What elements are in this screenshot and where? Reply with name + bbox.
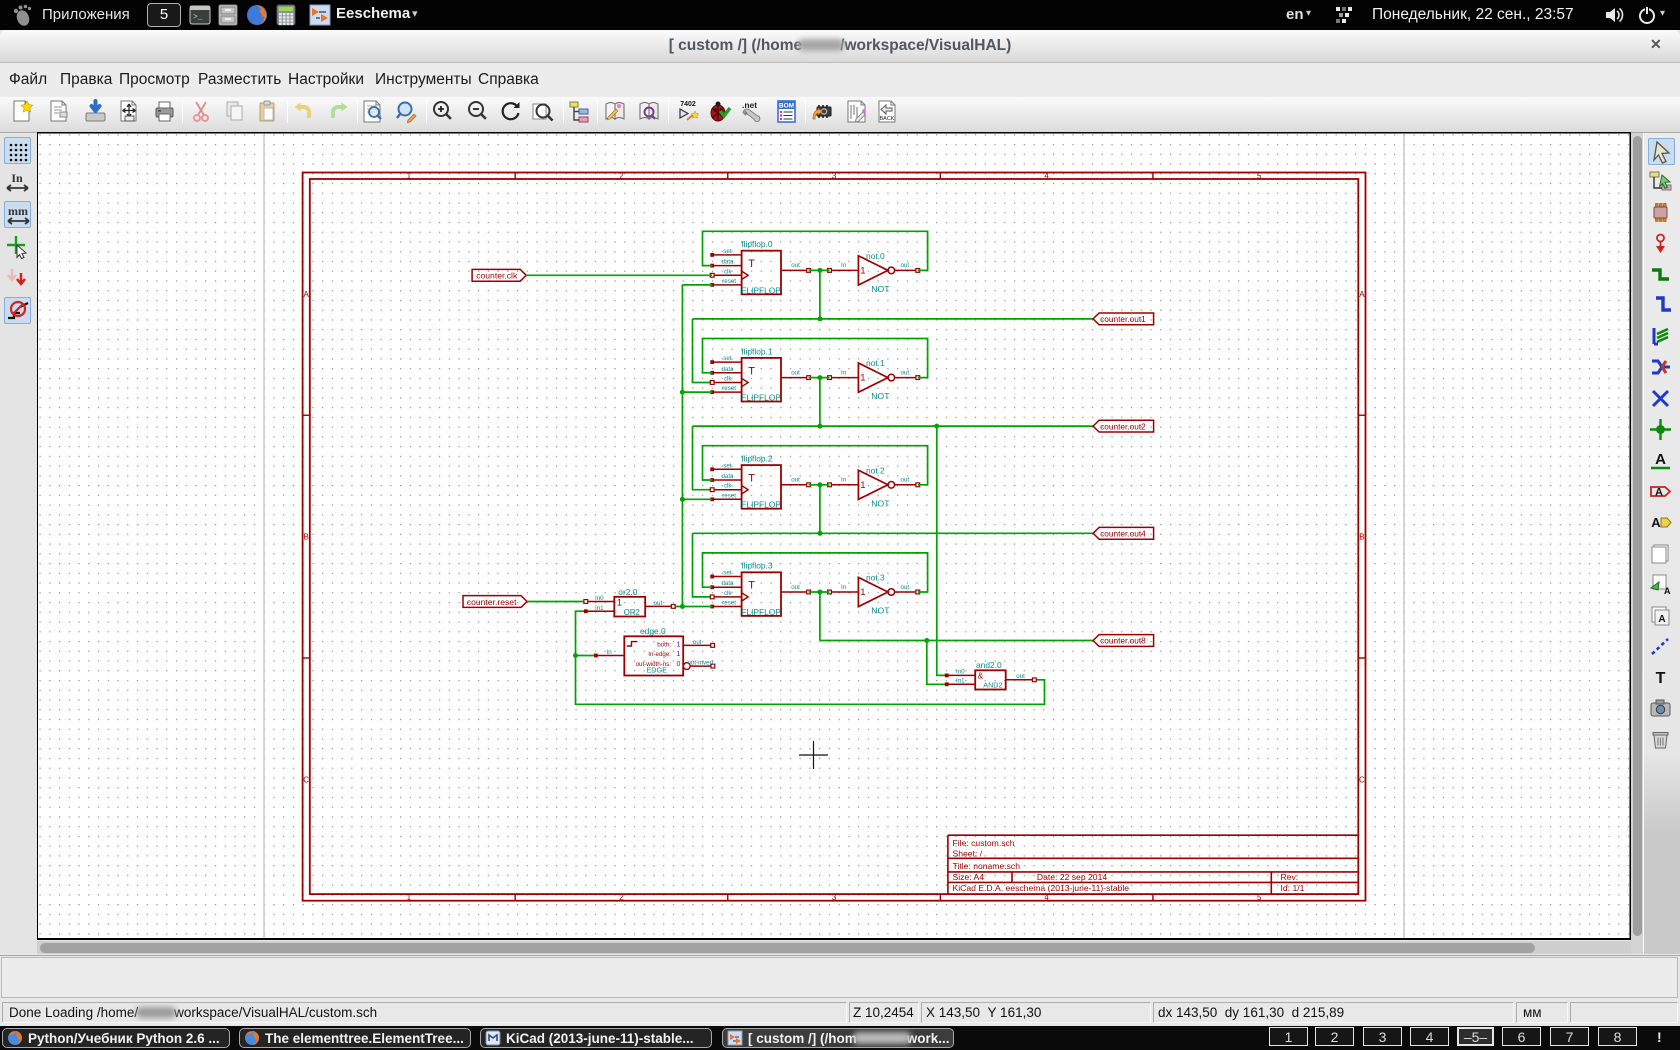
pin In of edge.0 [594, 649, 624, 658]
right tools toolbar [1643, 133, 1680, 954]
svg-text:reset: reset [722, 492, 736, 499]
svg-text:NOT: NOT [871, 498, 890, 508]
svg-text:7402: 7402 [680, 101, 696, 108]
svg-text:1: 1 [860, 587, 865, 598]
svg-text:Sheet: /: Sheet: / [953, 848, 983, 858]
svg-text:C: C [1359, 775, 1365, 784]
svg-text:In1: In1 [595, 605, 604, 612]
wire reset stub to flipflop.2 [682, 498, 712, 500]
junction at flipflop.0 out [817, 268, 822, 273]
svg-text:5: 5 [1257, 893, 1262, 902]
pin out of flipflop.1 [781, 369, 811, 379]
svg-text:C: C [303, 775, 309, 784]
horizontal scrollbar [37, 941, 1631, 954]
svg-text:reset: reset [722, 385, 736, 392]
svg-text:clk: clk [724, 268, 732, 275]
svg-text:not.0: not.0 [866, 251, 885, 261]
svg-text:4: 4 [1044, 893, 1049, 902]
svg-text:flipflop.2: flipflop.2 [741, 454, 773, 464]
svg-text:data: data [721, 580, 734, 587]
svg-text:In: In [841, 584, 847, 591]
junction at flipflop.3 out [817, 590, 822, 595]
svg-text:A: A [1658, 614, 1665, 625]
page right edge [1403, 134, 1405, 938]
pin clk of flipflop.1 [710, 376, 748, 387]
pin out of or2.0 [645, 600, 675, 608]
left tool grid icon [4, 137, 31, 164]
menu bar [0, 63, 1680, 97]
svg-text:3: 3 [832, 171, 837, 180]
page left edge [263, 134, 265, 938]
svg-text:and2.0: and2.0 [976, 660, 1002, 670]
junction reset vertical at flipflop.1 [680, 390, 685, 395]
svg-text:out: out [693, 639, 702, 646]
inverter not.1 [858, 358, 894, 401]
wire or2.0 out to flipflop.3 reset [673, 606, 712, 608]
pin set of flipflop.2 [710, 462, 741, 471]
svg-text:reset: reset [722, 600, 736, 607]
pin In of not.2 [828, 477, 859, 487]
svg-text:.net: .net [742, 100, 757, 110]
pin data of flipflop.1 [710, 366, 741, 375]
svg-text:clk: clk [724, 483, 732, 490]
pin out of and2.0 [1006, 673, 1037, 682]
svg-text:A: A [1359, 290, 1365, 299]
pin set of flipflop.1 [710, 355, 741, 364]
svg-text:flipflop.1: flipflop.1 [741, 346, 773, 356]
svg-text:EDGE: EDGE [647, 666, 668, 675]
wire counter.out2 down to flipflop.2 clk [693, 426, 713, 490]
pin data of flipflop.3 [710, 580, 741, 589]
svg-text:A: A [1655, 487, 1663, 499]
wire flipflop.1 out to not.1 In [809, 377, 830, 379]
svg-text:clk: clk [724, 590, 732, 597]
pin In of not.1 [828, 369, 859, 379]
svg-text:data: data [721, 259, 734, 266]
junction at flipflop.2 out [817, 482, 822, 487]
svg-text:In1: In1 [956, 677, 965, 684]
svg-text:5: 5 [1257, 171, 1262, 180]
wire junction down to counter.out8 net [819, 592, 821, 641]
sheet border frame [303, 171, 1366, 902]
left tool In units [4, 169, 31, 196]
svg-text:A: A [1651, 515, 1661, 530]
right vertical scrollbar [1631, 133, 1643, 954]
svg-text:data: data [721, 473, 734, 480]
svg-text:A: A [1664, 586, 1671, 596]
inverter not.2 [858, 465, 894, 508]
wire flipflop.0 out to not.0 In [809, 269, 830, 271]
edge detector edge.0 [624, 626, 683, 676]
left tool orient arrows [4, 265, 31, 292]
junction counter.out2 tap [934, 424, 939, 429]
pin out of edge.0 [683, 639, 714, 648]
svg-text:NOT: NOT [871, 284, 890, 294]
junction on counter.out4 row [817, 531, 822, 536]
wire flipflop.3 out to not.3 In [809, 591, 830, 593]
pin In of not.3 [828, 584, 859, 594]
wire net counter.out2 row [693, 425, 1094, 427]
svg-text:T: T [748, 580, 755, 592]
svg-text:set: set [723, 570, 732, 577]
svg-text:Size: A4: Size: A4 [953, 872, 985, 882]
svg-text:set: set [723, 355, 732, 362]
wire net counter.out4 row [693, 532, 1094, 534]
svg-text:In0: In0 [595, 595, 604, 602]
wire junction down to counter.out2 net [819, 378, 821, 427]
pin data of flipflop.0 [710, 259, 741, 268]
svg-text:1: 1 [677, 641, 681, 648]
pin clk of flipflop.0 [710, 268, 748, 279]
svg-text:out: out [791, 262, 800, 269]
svg-text:BACK: BACK [879, 116, 894, 122]
or-gate or2.0 [614, 587, 645, 617]
global label counter.out4 [1093, 527, 1154, 539]
wire counter.out8 to and2.0 In1 [927, 641, 947, 685]
pin In0 of or2.0 [584, 595, 614, 603]
junction at flipflop.1 out [817, 375, 822, 380]
svg-text:BOM: BOM [778, 103, 793, 110]
wire reset stub to flipflop.1 [682, 391, 712, 393]
bottom taskbar [0, 1026, 1680, 1050]
svg-text:out: out [901, 369, 910, 376]
wire feedback not.3 out to flipflop.3 data [703, 553, 928, 592]
svg-text:Title: noname.sch: Title: noname.sch [953, 861, 1021, 871]
wire flipflop.2 out to not.2 In [809, 484, 830, 486]
svg-text:In: In [841, 262, 847, 269]
svg-text:counter.out2: counter.out2 [1100, 421, 1146, 431]
wire feedback not.1 out to flipflop.1 data [703, 339, 928, 378]
svg-text:clk: clk [724, 376, 732, 383]
svg-text:not.3: not.3 [866, 573, 885, 583]
pin In1 of or2.0 [584, 605, 614, 613]
pin out of not.3 [895, 584, 920, 594]
pin clk of flipflop.2 [710, 483, 748, 494]
svg-text:counter.out8: counter.out8 [1100, 636, 1146, 646]
global label counter.out2 [1093, 420, 1154, 432]
pin out of flipflop.0 [781, 262, 811, 272]
svg-text:In-edge:: In-edge: [648, 651, 671, 658]
grid dots [39, 134, 1629, 938]
svg-text:or2.0: or2.0 [618, 587, 637, 597]
svg-text:1: 1 [860, 480, 865, 491]
svg-text:out-invert: out-invert [688, 659, 714, 666]
and-gate and2.0 [975, 660, 1006, 690]
svg-text:T: T [748, 365, 755, 377]
svg-text:data: data [721, 366, 734, 373]
wire junction down to counter.out4 net [819, 485, 821, 534]
junction counter.out8 tap [924, 638, 929, 643]
svg-text:counter.clk: counter.clk [476, 271, 518, 281]
pin out of not.2 [895, 477, 920, 487]
svg-text:Date: 22 sep 2014: Date: 22 sep 2014 [1037, 872, 1107, 882]
svg-text:In: In [841, 369, 847, 376]
svg-text:2: 2 [619, 171, 624, 180]
canvas white background [38, 133, 1630, 939]
svg-text:out: out [1016, 673, 1025, 680]
left option toolbar [0, 133, 37, 954]
wire net counter.out8 row [820, 640, 1093, 642]
svg-text:OR2: OR2 [624, 608, 640, 617]
svg-text:A: A [1655, 451, 1666, 468]
left tool cursor shape [4, 233, 31, 260]
svg-text:set: set [723, 462, 732, 469]
svg-text:out: out [901, 477, 910, 484]
svg-text:T: T [748, 473, 755, 485]
wire feedback not.0 out to flipflop.0 data [703, 231, 928, 270]
pin reset of flipflop.2 [710, 492, 741, 501]
schematic canvas [37, 132, 1631, 940]
inverter not.0 [858, 251, 894, 294]
svg-text:KiCad E.D.A. eeschema (2013-j: KiCad E.D.A. eeschema (2013-june-11)-sta… [953, 883, 1130, 893]
svg-text:2: 2 [619, 893, 624, 902]
junction on counter.out2 row [817, 424, 822, 429]
svg-text:out: out [654, 600, 663, 607]
svg-text:FLIPFLOP: FLIPFLOP [741, 500, 781, 510]
global label counter.out8 [1093, 635, 1154, 647]
svg-text:FLIPFLOP: FLIPFLOP [741, 607, 781, 617]
svg-text:flipflop.0: flipflop.0 [741, 239, 773, 249]
svg-text:flipflop.3: flipflop.3 [741, 561, 773, 571]
pin out of flipflop.3 [781, 584, 811, 594]
wire junction down to counter.out1 net [819, 270, 821, 319]
wire counter.out2 to and2.0 In0 [937, 426, 947, 675]
svg-text:In: In [607, 649, 613, 656]
flip-flop flipflop.1 [741, 346, 781, 402]
top desktop panel [0, 0, 1680, 30]
svg-text:A: A [304, 290, 310, 299]
svg-text:FLIPFLOP: FLIPFLOP [741, 393, 781, 403]
svg-text:B: B [1359, 533, 1364, 542]
svg-text:1: 1 [617, 597, 622, 608]
global label counter.clk [472, 269, 526, 281]
svg-text:1: 1 [677, 651, 681, 658]
svg-text:counter.out4: counter.out4 [1100, 529, 1146, 539]
pin clk of flipflop.3 [710, 590, 748, 601]
wire counter.clk to flipflop.0 clk [526, 274, 712, 276]
junction at or2.0 out [680, 604, 685, 609]
svg-text:Rev:: Rev: [1281, 872, 1299, 882]
svg-text:mm: mm [8, 204, 28, 218]
svg-text:out: out [791, 369, 800, 376]
svg-text:4: 4 [1044, 171, 1049, 180]
svg-text:counter.reset: counter.reset [467, 597, 517, 607]
pin set of flipflop.0 [710, 248, 741, 257]
svg-text:both:: both: [657, 641, 671, 648]
global label counter.out1 [1093, 313, 1154, 325]
svg-text:AND2: AND2 [983, 681, 1002, 690]
status bar row [0, 954, 1680, 1050]
svg-text:Id: 1/1: Id: 1/1 [1281, 883, 1305, 893]
pin out of not.0 [895, 262, 920, 272]
wire feedback not.2 out to flipflop.2 data [703, 446, 928, 485]
wire counter.out1 down to flipflop.1 clk [693, 319, 713, 383]
left tool hidden pins [4, 297, 31, 324]
wire reset stub to flipflop.0 [682, 284, 712, 286]
junction reset vertical at flipflop.2 [680, 497, 685, 502]
svg-text:In: In [841, 477, 847, 484]
svg-text:In: In [11, 171, 23, 185]
svg-text:out: out [791, 584, 800, 591]
flip-flop flipflop.2 [741, 454, 781, 510]
svg-text:counter.out1: counter.out1 [1100, 314, 1146, 324]
svg-text:3: 3 [832, 893, 837, 902]
title block [948, 835, 1358, 894]
svg-text:1: 1 [407, 893, 412, 902]
pin In0 of and2.0 [945, 668, 975, 677]
svg-text:out: out [901, 262, 910, 269]
svg-text:File: custom.sch: File: custom.sch [953, 838, 1015, 848]
svg-text:1: 1 [860, 373, 865, 384]
svg-text:In0: In0 [956, 668, 965, 675]
pin In1 of and2.0 [945, 677, 975, 686]
svg-text:reset: reset [722, 278, 736, 285]
wire counter.reset to or2.0 In0 [527, 601, 586, 603]
title bar [0, 30, 1680, 63]
flip-flop flipflop.3 [741, 561, 781, 617]
junction edge.0 In tap [573, 653, 578, 658]
svg-text:FLIPFLOP: FLIPFLOP [741, 285, 781, 295]
pin reset of flipflop.3 [710, 600, 741, 609]
svg-text:T: T [1656, 670, 1666, 687]
pin reset of flipflop.1 [710, 385, 741, 394]
svg-text:not.2: not.2 [866, 465, 885, 475]
svg-text:T: T [748, 258, 755, 270]
svg-text:not.1: not.1 [866, 358, 885, 368]
svg-text:0: 0 [677, 661, 681, 668]
pin data of flipflop.2 [710, 473, 741, 482]
svg-text:set: set [723, 248, 732, 255]
svg-text:out: out [791, 477, 800, 484]
crosshair cursor [799, 741, 828, 769]
svg-text:>_: >_ [193, 13, 203, 22]
global label counter.reset [463, 596, 527, 608]
wire edge.0 In tap [576, 655, 596, 657]
svg-text:1: 1 [407, 171, 412, 180]
svg-text:edge.0: edge.0 [640, 626, 666, 636]
svg-text:B: B [304, 533, 309, 542]
svg-text:NOT: NOT [871, 391, 890, 401]
svg-text:NOT: NOT [871, 606, 890, 616]
pin In of not.0 [828, 262, 859, 272]
wire counter.out4 down to flipflop.3 clk [693, 533, 713, 597]
pin out-invert of edge.0 [683, 659, 714, 669]
wire net counter.out1 row [693, 318, 1094, 320]
svg-text:1: 1 [860, 265, 865, 276]
pin reset of flipflop.0 [710, 278, 741, 287]
wire and2.0 out loop to or2.0 In1 [576, 611, 1045, 704]
pin out of flipflop.2 [781, 477, 811, 487]
left tool mm units [4, 201, 31, 228]
svg-text:out: out [901, 584, 910, 591]
wire reset distribution vertical [681, 285, 683, 607]
pin out of not.1 [895, 369, 920, 379]
junction on counter.out1 row [817, 316, 822, 321]
pin set of flipflop.3 [710, 570, 741, 579]
svg-text:&: & [978, 672, 984, 681]
inverter not.3 [858, 573, 894, 616]
toolbar [0, 97, 1680, 133]
flip-flop flipflop.0 [741, 239, 781, 295]
